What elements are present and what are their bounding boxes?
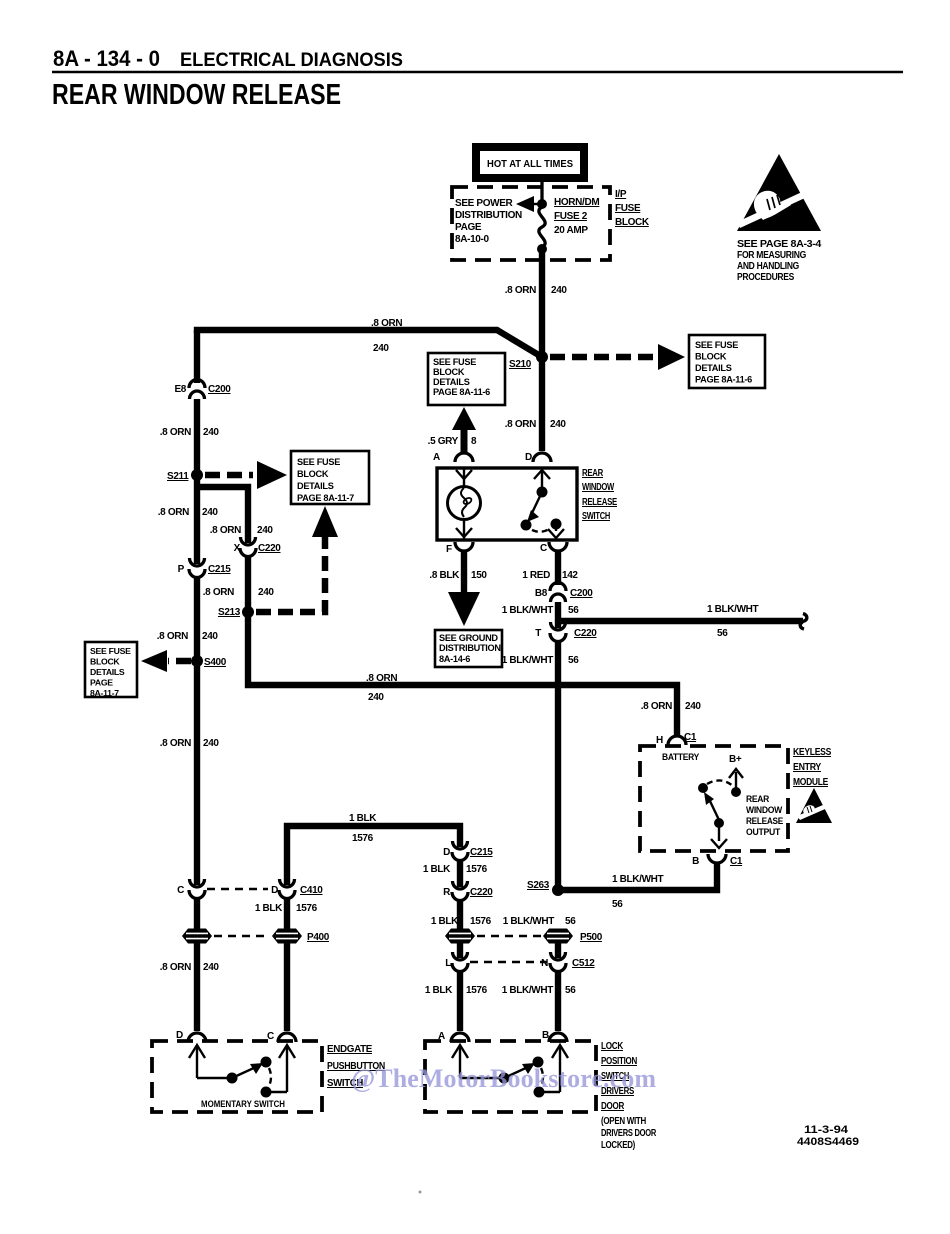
splice S213 xyxy=(218,606,254,618)
svg-text:X: X xyxy=(234,543,241,554)
pin D entry arc xyxy=(525,452,551,463)
PAGE HEADER xyxy=(52,46,903,111)
svg-text:T: T xyxy=(535,628,541,639)
scan speck xyxy=(419,1191,422,1194)
connector C215 pin P xyxy=(178,558,232,578)
svg-text:1 BLK/WHT: 1 BLK/WHT xyxy=(502,985,554,996)
svg-text:1 BLK: 1 BLK xyxy=(349,813,377,824)
svg-text:C512: C512 xyxy=(572,958,595,969)
svg-text:C1: C1 xyxy=(684,732,697,743)
see fuse block details 8A-11-7 box (upper) xyxy=(291,451,369,504)
svg-text:1 RED: 1 RED xyxy=(522,570,550,581)
svg-text:DETAILS: DETAILS xyxy=(90,667,125,677)
wire label .8 ORN 240 above S400 xyxy=(157,631,219,642)
svg-text:P: P xyxy=(178,564,185,575)
small ESD triangle xyxy=(796,788,832,823)
dashed link C512 halves xyxy=(470,961,547,963)
wire label .8 ORN 240 xyxy=(505,419,567,430)
svg-text:C: C xyxy=(177,885,184,896)
svg-text:.8 ORN: .8 ORN xyxy=(641,701,672,712)
svg-text:(OPEN WITH: (OPEN WITH xyxy=(601,1116,646,1127)
svg-text:S213: S213 xyxy=(218,607,241,618)
relay contact right xyxy=(731,787,741,797)
svg-text:BLOCK: BLOCK xyxy=(695,352,727,362)
svg-text:240: 240 xyxy=(203,738,219,749)
svg-text:56: 56 xyxy=(612,899,623,910)
wire label .8 ORN 240 xyxy=(210,525,274,536)
svg-text:C410: C410 xyxy=(300,885,323,896)
svg-text:56: 56 xyxy=(565,916,576,927)
svg-text:ENDGATE: ENDGATE xyxy=(327,1044,373,1055)
svg-text:L: L xyxy=(445,958,451,969)
node below fuse xyxy=(537,244,547,254)
CENTER SWITCH xyxy=(429,452,806,890)
endgate switch arm with arrowhead xyxy=(232,1063,263,1078)
svg-text:1 BLK: 1 BLK xyxy=(423,864,451,875)
svg-text:1576: 1576 xyxy=(466,985,488,996)
svg-text:BLOCK: BLOCK xyxy=(297,469,329,479)
svg-text:B8: B8 xyxy=(535,588,548,599)
dashed arrow S211 to fuse block details box xyxy=(205,461,287,489)
svg-text:H: H xyxy=(656,735,663,746)
endgate line to pin C with arrow xyxy=(266,1045,295,1092)
svg-text:DISTRIBUTION: DISTRIBUTION xyxy=(455,210,522,221)
svg-text:REAR WINDOW RELEASE: REAR WINDOW RELEASE xyxy=(52,79,341,111)
svg-text:WINDOW: WINDOW xyxy=(582,482,615,493)
ESD NOTICE xyxy=(737,154,822,283)
keyless entry module dashed box xyxy=(640,746,788,851)
splice S263 xyxy=(527,880,564,896)
wire label .8 ORN 240 below S211 xyxy=(158,507,219,518)
see power distribution arrow xyxy=(516,196,544,212)
wire C512 to lock switch pin B xyxy=(555,970,561,1031)
svg-text:C215: C215 xyxy=(470,847,493,858)
wire C to C200 xyxy=(555,550,561,585)
svg-text:SEE FUSE: SEE FUSE xyxy=(90,646,131,656)
wire label .5 GRY 8 xyxy=(428,436,477,447)
svg-text:56: 56 xyxy=(568,605,579,616)
svg-text:.8 ORN: .8 ORN xyxy=(505,285,536,296)
I/P fuse block dashed box xyxy=(452,187,610,260)
rear window release output label xyxy=(746,794,783,837)
connector C1 pin H entry arc xyxy=(656,732,697,746)
svg-text:ENTRY: ENTRY xyxy=(793,762,822,773)
splice S211 xyxy=(167,469,203,482)
wire C220 to S213 xyxy=(245,556,251,612)
HOT AT ALL TIMES banner xyxy=(472,143,588,182)
svg-text:RELEASE: RELEASE xyxy=(746,816,783,826)
svg-text:BLOCK: BLOCK xyxy=(90,657,120,667)
see ground distribution box xyxy=(435,630,502,667)
svg-text:@TheMotorBookstore.com: @TheMotorBookstore.com xyxy=(351,1064,656,1093)
keyless entry module label xyxy=(793,747,832,788)
connector C220 pin X xyxy=(234,537,282,557)
svg-text:240: 240 xyxy=(203,962,219,973)
svg-text:11-3-94: 11-3-94 xyxy=(804,1124,849,1136)
svg-text:.8 ORN: .8 ORN xyxy=(210,525,241,536)
svg-text:56: 56 xyxy=(717,628,728,639)
wire P500 to C512 left xyxy=(457,943,463,958)
svg-text:R: R xyxy=(443,887,451,898)
lock line to pin B with arrow xyxy=(539,1045,568,1092)
svg-text:C220: C220 xyxy=(258,543,281,554)
wire C512 to lock switch pin A xyxy=(457,970,463,1031)
svg-text:8A-10-0: 8A-10-0 xyxy=(455,234,489,245)
endgate pin C entry arc xyxy=(267,1031,296,1042)
relay contact bottom xyxy=(714,818,724,828)
connector C410 pin D xyxy=(271,879,323,899)
grommet P500 left xyxy=(445,929,475,944)
endgate contact common xyxy=(227,1073,238,1084)
see power distribution note xyxy=(455,198,522,245)
svg-text:C215: C215 xyxy=(208,564,231,575)
svg-text:.8 ORN: .8 ORN xyxy=(505,419,536,430)
wire label .8 ORN 240 xyxy=(203,587,275,598)
endgate contact upper xyxy=(261,1057,272,1068)
svg-text:20 AMP: 20 AMP xyxy=(554,225,588,236)
pin F exit cup xyxy=(446,542,473,555)
wire C200 to C220 xyxy=(555,602,561,628)
svg-text:.8 BLK: .8 BLK xyxy=(429,570,460,581)
pin A entry arc xyxy=(433,452,473,463)
wire label .8 ORN 240 xyxy=(371,318,402,354)
grommet P400 left xyxy=(182,929,212,944)
switch name label xyxy=(582,468,618,522)
wire C215 to C410 xyxy=(194,577,200,885)
wire C220 down to S263 xyxy=(555,640,561,890)
svg-text:RELEASE: RELEASE xyxy=(582,497,618,508)
svg-text:1 BLK: 1 BLK xyxy=(425,985,453,996)
svg-text:1 BLK/WHT: 1 BLK/WHT xyxy=(503,916,555,927)
svg-text:LOCKED): LOCKED) xyxy=(601,1140,635,1151)
svg-text:1 BLK/WHT: 1 BLK/WHT xyxy=(502,655,554,666)
svg-text:I/P: I/P xyxy=(615,189,627,200)
see fuse block details 8A-11-7 box (lower left) xyxy=(85,642,137,698)
dashed arrow S210 to fuse block details xyxy=(550,344,685,370)
wire branch to the right with hook xyxy=(558,614,807,630)
switch contact from pin D xyxy=(534,468,550,498)
svg-text:S400: S400 xyxy=(204,657,227,668)
svg-text:PAGE: PAGE xyxy=(455,222,482,233)
svg-text:E8: E8 xyxy=(174,384,186,395)
wire C200 to C215 xyxy=(194,399,200,564)
connector C200 pin B8 xyxy=(535,583,593,603)
svg-text:PAGE 8A-11-6: PAGE 8A-11-6 xyxy=(433,387,490,397)
svg-text:8A-14-6: 8A-14-6 xyxy=(439,654,470,664)
svg-text:HORN/DM: HORN/DM xyxy=(554,197,599,208)
svg-text:D: D xyxy=(525,452,532,463)
BOTTOM BOXES xyxy=(152,1030,859,1151)
fuse element squiggle xyxy=(539,207,545,247)
switch contact pin C xyxy=(548,519,564,539)
svg-text:P500: P500 xyxy=(580,932,603,943)
see fuse block details 8A-11-6 box (center) xyxy=(428,353,505,405)
svg-text:B+: B+ xyxy=(729,754,742,765)
svg-text:4408S4469: 4408S4469 xyxy=(797,1136,859,1148)
ESD warning triangle xyxy=(737,154,821,231)
wire label .8 ORN 240 xyxy=(160,962,220,973)
svg-text:PAGE 8A-11-6: PAGE 8A-11-6 xyxy=(695,375,752,385)
svg-text:240: 240 xyxy=(202,507,218,518)
wire C220 to P500 xyxy=(457,899,463,929)
rear window release switch box xyxy=(437,468,577,540)
svg-text:1576: 1576 xyxy=(296,903,318,914)
wire C215 to C220 xyxy=(457,859,463,887)
svg-text:C1: C1 xyxy=(730,856,743,867)
svg-text:B: B xyxy=(542,1030,549,1041)
svg-text:C220: C220 xyxy=(470,887,493,898)
wire down to connector C200 xyxy=(194,330,200,383)
wire label 1 BLK 1576 xyxy=(255,903,318,914)
svg-text:AND HANDLING: AND HANDLING xyxy=(737,261,799,272)
svg-text:S211: S211 xyxy=(167,471,189,482)
svg-text:PAGE: PAGE xyxy=(90,678,113,688)
relay contact left xyxy=(698,783,708,793)
connector C1 pin B exit cup xyxy=(692,854,743,867)
svg-text:56: 56 xyxy=(565,985,576,996)
svg-text:240: 240 xyxy=(258,587,274,598)
svg-text:.8 ORN: .8 ORN xyxy=(160,738,191,749)
svg-text:56: 56 xyxy=(568,655,579,666)
lock switch arm with arrowhead xyxy=(504,1063,535,1078)
LEFT CHAIN xyxy=(85,318,701,1031)
svg-text:1576: 1576 xyxy=(352,833,374,844)
TOP FUSE AREA xyxy=(428,143,765,452)
connector C410 pin C xyxy=(177,879,205,899)
wire C410 to P400 xyxy=(284,897,290,929)
fuse HORN/DM FUSE 2 20 AMP label xyxy=(554,197,599,236)
svg-text:240: 240 xyxy=(368,692,384,703)
B+ arrow up xyxy=(729,769,743,790)
wire fuse output down to S210 xyxy=(539,249,545,357)
svg-text:MODULE: MODULE xyxy=(793,777,829,788)
svg-text:1 BLK/WHT: 1 BLK/WHT xyxy=(707,604,759,615)
wire label 1 BLK/WHT 56 xyxy=(502,985,577,996)
pin C exit cup xyxy=(540,542,567,554)
node at fuse feed xyxy=(537,199,547,209)
indicator lamp xyxy=(448,487,481,520)
endgate pin D arrow xyxy=(189,1045,205,1078)
ESD note text xyxy=(737,239,822,283)
endgate pushbutton switch dashed box xyxy=(152,1041,322,1112)
svg-text:.8 ORN: .8 ORN xyxy=(371,318,402,329)
wire label 1 BLK 1576 xyxy=(423,864,488,875)
LOWER CHAINS xyxy=(255,813,603,1031)
svg-text:REAR: REAR xyxy=(746,794,770,804)
dashed arrow S400 to fuse block details box xyxy=(141,650,191,672)
output wire arrow down xyxy=(711,826,727,848)
svg-text:240: 240 xyxy=(685,701,701,712)
wire endgate branch top horizontal xyxy=(287,826,460,885)
dashed arrow S213 up to 8A-11-7 box xyxy=(256,506,338,612)
svg-text:.8 ORN: .8 ORN xyxy=(203,587,234,598)
lock contact common xyxy=(499,1073,510,1084)
wire label .8 ORN 240 xyxy=(160,427,220,438)
endgate contact lower xyxy=(261,1087,272,1098)
lock switch pin B entry arc xyxy=(542,1030,567,1042)
wire label 1 BLK 1576 xyxy=(431,916,492,927)
see fuse block details 8A-11-6 box (right) xyxy=(689,335,765,388)
svg-text:BATTERY: BATTERY xyxy=(662,752,699,762)
svg-text:N: N xyxy=(541,958,548,969)
svg-text:1 BLK/WHT: 1 BLK/WHT xyxy=(612,874,664,885)
wire P400 to endgate pin C xyxy=(284,943,290,1031)
svg-text:240: 240 xyxy=(373,343,389,354)
dashed throw arc xyxy=(532,529,549,532)
svg-text:SWITCH: SWITCH xyxy=(582,511,610,522)
svg-text:SEE POWER: SEE POWER xyxy=(455,198,514,209)
svg-text:.8 ORN: .8 ORN xyxy=(160,427,191,438)
svg-text:F: F xyxy=(446,544,452,555)
wire label .8 ORN 240 xyxy=(366,673,397,703)
wire top horizontal feed to S210 xyxy=(197,330,542,357)
grommet P400 right xyxy=(272,929,330,944)
endgate pin D entry arc xyxy=(176,1030,206,1042)
svg-text:1 BLK: 1 BLK xyxy=(255,903,283,914)
wire label 1 BLK/WHT 56 on branch xyxy=(707,604,759,639)
wire label 1 BLK/WHT 56 xyxy=(502,605,580,616)
svg-text:1576: 1576 xyxy=(466,864,488,875)
svg-text:150: 150 xyxy=(471,570,487,581)
dashed link C410 halves xyxy=(207,888,268,890)
svg-text:D: D xyxy=(271,885,278,896)
svg-text:HOT AT ALL TIMES: HOT AT ALL TIMES xyxy=(487,159,573,170)
wire label 1 BLK/WHT 56 xyxy=(612,874,664,910)
svg-text:1 BLK/WHT: 1 BLK/WHT xyxy=(502,605,554,616)
lock position switch dashed box xyxy=(425,1041,596,1112)
lock switch common line xyxy=(460,1077,500,1079)
svg-text:.5 GRY: .5 GRY xyxy=(428,436,459,447)
svg-text:240: 240 xyxy=(551,285,567,296)
lock pin A arrow xyxy=(452,1045,468,1078)
connector C220 pin R xyxy=(443,881,493,901)
wire label .8 BLK 150 xyxy=(429,570,487,581)
dashed throw arc xyxy=(707,780,733,786)
wire label 1 BLK/WHT 56 xyxy=(503,916,577,927)
svg-text:DETAILS: DETAILS xyxy=(695,363,732,373)
wire F to ground arrow xyxy=(461,550,467,596)
connector C215 pin D xyxy=(443,841,493,861)
svg-text:DISTRIBUTION: DISTRIBUTION xyxy=(439,643,501,653)
header rule xyxy=(52,71,903,74)
lock dashed throw arc xyxy=(541,1068,543,1086)
svg-text:B: B xyxy=(692,856,699,867)
endgate switch label xyxy=(327,1044,385,1089)
lock contact lower xyxy=(534,1087,545,1098)
svg-text:S263: S263 xyxy=(527,880,550,891)
splice S400 xyxy=(191,655,227,668)
svg-text:SEE FUSE: SEE FUSE xyxy=(695,340,738,350)
svg-text:KEYLESS: KEYLESS xyxy=(793,747,832,758)
svg-text:SEE FUSE: SEE FUSE xyxy=(297,457,340,467)
relay arm with arrowhead xyxy=(704,792,719,820)
svg-text:D: D xyxy=(443,847,450,858)
svg-text:WINDOW: WINDOW xyxy=(746,805,783,815)
lock switch pin A entry arc xyxy=(438,1031,469,1042)
svg-text:BLOCK: BLOCK xyxy=(615,217,650,228)
svg-text:DETAILS: DETAILS xyxy=(433,377,470,387)
svg-text:142: 142 xyxy=(562,570,578,581)
svg-text:C: C xyxy=(540,543,547,554)
svg-text:DETAILS: DETAILS xyxy=(297,481,334,491)
WATERMARK xyxy=(351,1064,656,1093)
svg-text:8: 8 xyxy=(471,436,477,447)
svg-text:C: C xyxy=(267,1031,274,1042)
wire label .8 ORN 240 xyxy=(505,285,568,296)
lock contact upper xyxy=(533,1057,544,1068)
svg-text:1576: 1576 xyxy=(470,916,492,927)
connector C512 pin N xyxy=(541,952,595,972)
wire P500 to C512 right xyxy=(555,943,561,958)
svg-text:.8 ORN: .8 ORN xyxy=(158,507,189,518)
endgate dashed throw arc xyxy=(269,1068,271,1086)
lamp leg wire with arrows xyxy=(456,468,472,540)
arrow up into fuse details box from switch pin A xyxy=(452,407,476,452)
wire branch S211 to C220 xyxy=(197,487,248,543)
wire from banner into fuse block xyxy=(540,180,543,203)
wire B down and left to S263 xyxy=(558,862,717,890)
svg-text:DRIVERS DOOR: DRIVERS DOOR xyxy=(601,1128,657,1139)
svg-text:8A-11-7: 8A-11-7 xyxy=(90,688,119,698)
wire label .8 ORN 240 xyxy=(160,738,220,749)
svg-text:.8 ORN: .8 ORN xyxy=(157,631,188,642)
svg-text:LOCK: LOCK xyxy=(601,1041,624,1052)
connector C220 pin T xyxy=(535,622,597,642)
svg-text:ELECTRICAL DIAGNOSIS: ELECTRICAL DIAGNOSIS xyxy=(180,49,403,71)
wire label 1 RED 142 xyxy=(522,570,578,581)
lock switch label xyxy=(601,1041,657,1151)
svg-text:SEE PAGE 8A-3-4: SEE PAGE 8A-3-4 xyxy=(737,239,822,250)
svg-text:240: 240 xyxy=(550,419,566,430)
svg-text:FUSE: FUSE xyxy=(615,203,641,214)
switch contact lower left xyxy=(521,520,532,531)
wire label 1 BLK 1576 xyxy=(425,985,488,996)
svg-text:240: 240 xyxy=(203,427,219,438)
svg-text:FOR MEASURING: FOR MEASURING xyxy=(737,250,806,261)
svg-text:PAGE 8A-11-7: PAGE 8A-11-7 xyxy=(297,493,354,503)
svg-text:REAR: REAR xyxy=(582,468,604,479)
svg-text:SEE FUSE: SEE FUSE xyxy=(433,357,476,367)
svg-text:C200: C200 xyxy=(570,588,593,599)
wire label 1 BLK 1576 xyxy=(349,813,377,844)
wire P400 to endgate switch pin D xyxy=(194,943,200,1031)
svg-text:SEE GROUND: SEE GROUND xyxy=(439,633,498,643)
svg-text:.8 ORN: .8 ORN xyxy=(366,673,397,684)
svg-text:8A - 134 - 0: 8A - 134 - 0 xyxy=(53,46,160,71)
splice S210 xyxy=(509,351,548,370)
svg-text:S210: S210 xyxy=(509,359,532,370)
RIGHT AREA xyxy=(527,732,832,910)
connector C200 pin E8 xyxy=(174,380,231,400)
svg-text:C220: C220 xyxy=(574,628,597,639)
dashed link P500 halves xyxy=(477,935,541,937)
I/P fuse block label xyxy=(615,189,650,228)
svg-text:MOMENTARY SWITCH: MOMENTARY SWITCH xyxy=(201,1099,285,1109)
svg-text:240: 240 xyxy=(202,631,218,642)
svg-text:240: 240 xyxy=(257,525,273,536)
svg-text:OUTPUT: OUTPUT xyxy=(746,827,781,837)
ground distribution arrow xyxy=(448,592,480,626)
dashed link P400 halves xyxy=(214,935,270,937)
wire S213 down and across to keyless module xyxy=(248,612,677,737)
connector C512 pin L xyxy=(445,952,468,972)
grommet P500 right xyxy=(543,929,603,944)
svg-text:.8 ORN: .8 ORN xyxy=(160,962,191,973)
svg-text:C200: C200 xyxy=(208,384,231,395)
svg-text:BLOCK: BLOCK xyxy=(433,367,465,377)
svg-text:1 BLK: 1 BLK xyxy=(431,916,459,927)
endgate switch common line xyxy=(197,1077,228,1079)
